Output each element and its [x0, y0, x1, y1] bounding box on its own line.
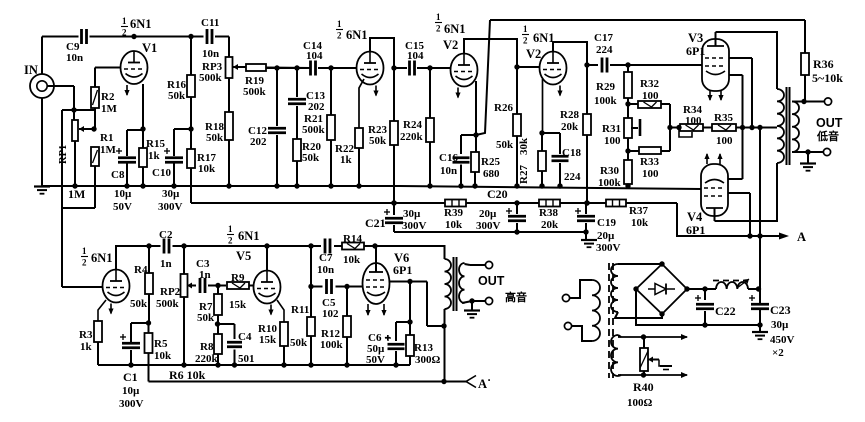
svg-text:1k: 1k — [80, 341, 93, 353]
svg-text:30k: 30k — [518, 137, 530, 155]
svg-text:R5: R5 — [154, 338, 168, 350]
svg-text:OUT: OUT — [816, 116, 843, 130]
svg-text:C22: C22 — [715, 304, 736, 318]
svg-text:R24: R24 — [403, 119, 422, 131]
svg-text:224: 224 — [564, 171, 581, 183]
svg-text:V1: V1 — [142, 41, 157, 55]
svg-text:102: 102 — [322, 308, 339, 320]
svg-text:50k: 50k — [130, 298, 148, 310]
svg-text:2: 2 — [82, 258, 87, 268]
svg-text:1: 1 — [82, 246, 87, 256]
svg-text:R9: R9 — [231, 272, 245, 284]
svg-text:50k: 50k — [290, 337, 308, 349]
svg-text:50V: 50V — [113, 201, 132, 213]
svg-text:1k: 1k — [148, 150, 161, 162]
svg-text:100: 100 — [642, 168, 659, 180]
svg-text:R3: R3 — [79, 329, 93, 341]
svg-text:2: 2 — [523, 36, 528, 46]
svg-text:50k: 50k — [197, 312, 215, 324]
svg-text:100k: 100k — [598, 177, 622, 189]
svg-text:R40: R40 — [633, 380, 654, 394]
svg-text:C17: C17 — [594, 32, 613, 44]
svg-text:1: 1 — [337, 19, 342, 29]
svg-text:50k: 50k — [206, 132, 224, 144]
svg-text:2: 2 — [228, 236, 233, 246]
svg-text:V3: V3 — [688, 31, 703, 45]
svg-text:R1: R1 — [100, 132, 113, 144]
svg-text:10µ: 10µ — [114, 188, 132, 200]
svg-text:R2: R2 — [101, 91, 115, 103]
svg-text:100: 100 — [716, 135, 733, 147]
svg-text:IN: IN — [24, 63, 38, 77]
svg-text:300V: 300V — [119, 398, 144, 410]
svg-text:10k: 10k — [154, 350, 172, 362]
svg-text:R29: R29 — [596, 81, 615, 93]
svg-text:R31: R31 — [602, 123, 621, 135]
svg-text:20k: 20k — [561, 121, 579, 133]
svg-text:1M: 1M — [101, 103, 118, 115]
svg-text:15k: 15k — [259, 334, 277, 346]
svg-text:100k: 100k — [594, 95, 618, 107]
svg-text:R8: R8 — [200, 341, 214, 353]
svg-text:100Ω: 100Ω — [627, 397, 653, 409]
svg-text:R38: R38 — [539, 207, 558, 219]
svg-text:V5: V5 — [236, 249, 251, 263]
svg-text:50V: 50V — [366, 354, 385, 366]
svg-text:1n: 1n — [199, 269, 211, 281]
svg-text:20µ: 20µ — [597, 230, 615, 242]
svg-text:R37: R37 — [629, 205, 648, 217]
svg-text:×2: ×2 — [772, 347, 784, 359]
svg-text:6N1: 6N1 — [238, 229, 260, 243]
svg-text:R4: R4 — [134, 264, 148, 276]
svg-text:20µ: 20µ — [479, 208, 497, 220]
svg-text:R39: R39 — [444, 207, 463, 219]
svg-text:2: 2 — [436, 24, 441, 34]
svg-text:104: 104 — [306, 50, 323, 62]
svg-text:5~10k: 5~10k — [812, 71, 843, 85]
svg-text:1: 1 — [228, 224, 233, 234]
svg-text:6P1: 6P1 — [686, 44, 705, 58]
svg-text:RP2: RP2 — [160, 286, 181, 298]
svg-text:202: 202 — [250, 136, 267, 148]
svg-text:C21: C21 — [365, 216, 386, 230]
svg-text:C2: C2 — [159, 229, 173, 241]
svg-text:300Ω: 300Ω — [415, 354, 441, 366]
svg-text:V4: V4 — [687, 210, 703, 224]
svg-text:R30: R30 — [600, 165, 619, 177]
svg-text:30µ: 30µ — [162, 188, 180, 200]
svg-text:100: 100 — [604, 135, 621, 147]
svg-text:1: 1 — [523, 24, 528, 34]
svg-text:30µ: 30µ — [403, 208, 421, 220]
svg-text:50k: 50k — [302, 152, 320, 164]
svg-text:R26: R26 — [494, 102, 513, 114]
svg-text:C16: C16 — [439, 152, 458, 164]
svg-text:R15: R15 — [146, 138, 165, 150]
svg-text:6N1: 6N1 — [130, 17, 152, 31]
svg-text:C10: C10 — [152, 167, 171, 179]
svg-text:R14: R14 — [343, 233, 362, 245]
svg-text:1n: 1n — [160, 258, 172, 270]
svg-text:OUT: OUT — [478, 274, 505, 288]
svg-text:6N1: 6N1 — [444, 22, 466, 36]
svg-text:R25: R25 — [481, 156, 500, 168]
svg-text:2: 2 — [337, 31, 342, 41]
svg-text:R13: R13 — [414, 342, 433, 354]
svg-text:300V: 300V — [596, 242, 621, 254]
svg-text:501: 501 — [238, 353, 255, 365]
svg-text:500k: 500k — [302, 124, 326, 136]
svg-text:10n: 10n — [440, 165, 457, 177]
svg-text:C8: C8 — [111, 169, 125, 181]
svg-text:V2: V2 — [443, 38, 458, 52]
svg-text:R33: R33 — [640, 156, 659, 168]
svg-text:C20: C20 — [487, 187, 508, 201]
svg-text:低音: 低音 — [816, 129, 839, 143]
svg-text:104: 104 — [407, 50, 424, 62]
svg-text:50k: 50k — [496, 139, 514, 151]
svg-text:10n: 10n — [202, 48, 219, 60]
svg-text:10µ: 10µ — [122, 385, 140, 397]
svg-text:R32: R32 — [640, 78, 659, 90]
svg-text:6N1: 6N1 — [346, 28, 368, 42]
svg-text:220k: 220k — [195, 353, 219, 365]
svg-text:10n: 10n — [66, 52, 83, 64]
svg-text:1: 1 — [436, 12, 441, 22]
svg-text:6P1: 6P1 — [686, 223, 705, 237]
svg-text:C19: C19 — [597, 217, 616, 229]
svg-text:V2: V2 — [526, 47, 541, 61]
svg-text:C7: C7 — [319, 252, 333, 264]
svg-text:RP1: RP1 — [58, 145, 69, 164]
svg-text:10k: 10k — [343, 254, 361, 266]
svg-text:2: 2 — [122, 28, 127, 38]
svg-text:300V: 300V — [158, 201, 183, 213]
svg-text:C18: C18 — [562, 147, 581, 159]
svg-text:A: A — [797, 230, 806, 244]
svg-text:R35: R35 — [714, 112, 733, 124]
svg-text:R6 10k: R6 10k — [169, 368, 206, 382]
svg-text:100: 100 — [642, 90, 659, 102]
svg-text:100: 100 — [685, 115, 702, 127]
svg-text:10n: 10n — [317, 264, 334, 276]
svg-text:100k: 100k — [320, 339, 344, 351]
svg-text:680: 680 — [483, 168, 500, 180]
svg-text:500k: 500k — [243, 86, 267, 98]
svg-text:500k: 500k — [199, 72, 223, 84]
svg-text:50k: 50k — [369, 135, 387, 147]
svg-text:10k: 10k — [198, 163, 216, 175]
svg-text:6N1: 6N1 — [533, 31, 555, 45]
svg-text:220k: 220k — [400, 131, 424, 143]
svg-text:224: 224 — [596, 44, 613, 56]
svg-text:A˙: A˙ — [478, 377, 491, 391]
svg-text:R36: R36 — [813, 57, 834, 71]
svg-text:1M: 1M — [68, 187, 85, 201]
svg-text:R27: R27 — [518, 165, 530, 184]
svg-text:20k: 20k — [541, 219, 559, 231]
svg-text:1k: 1k — [340, 154, 353, 166]
svg-text:50k: 50k — [168, 90, 186, 102]
svg-text:30µ: 30µ — [771, 319, 789, 331]
svg-text:C1: C1 — [123, 370, 138, 384]
svg-text:15k: 15k — [229, 299, 247, 311]
svg-text:300V: 300V — [476, 220, 501, 232]
svg-text:450V: 450V — [770, 334, 795, 346]
svg-text:C11: C11 — [201, 17, 219, 29]
svg-text:6N1: 6N1 — [91, 251, 113, 265]
svg-text:500k: 500k — [156, 298, 180, 310]
svg-text:1: 1 — [122, 16, 127, 26]
svg-text:202: 202 — [308, 101, 325, 113]
svg-text:C4: C4 — [238, 331, 252, 343]
svg-text:高音: 高音 — [505, 290, 527, 304]
svg-text:R11: R11 — [291, 304, 309, 316]
svg-text:300V: 300V — [402, 220, 427, 232]
svg-text:1M: 1M — [100, 144, 117, 156]
svg-text:R28: R28 — [560, 109, 579, 121]
svg-text:6P1: 6P1 — [393, 263, 412, 277]
svg-text:C23: C23 — [770, 303, 791, 317]
svg-text:10k: 10k — [445, 219, 463, 231]
svg-text:10k: 10k — [631, 217, 649, 229]
